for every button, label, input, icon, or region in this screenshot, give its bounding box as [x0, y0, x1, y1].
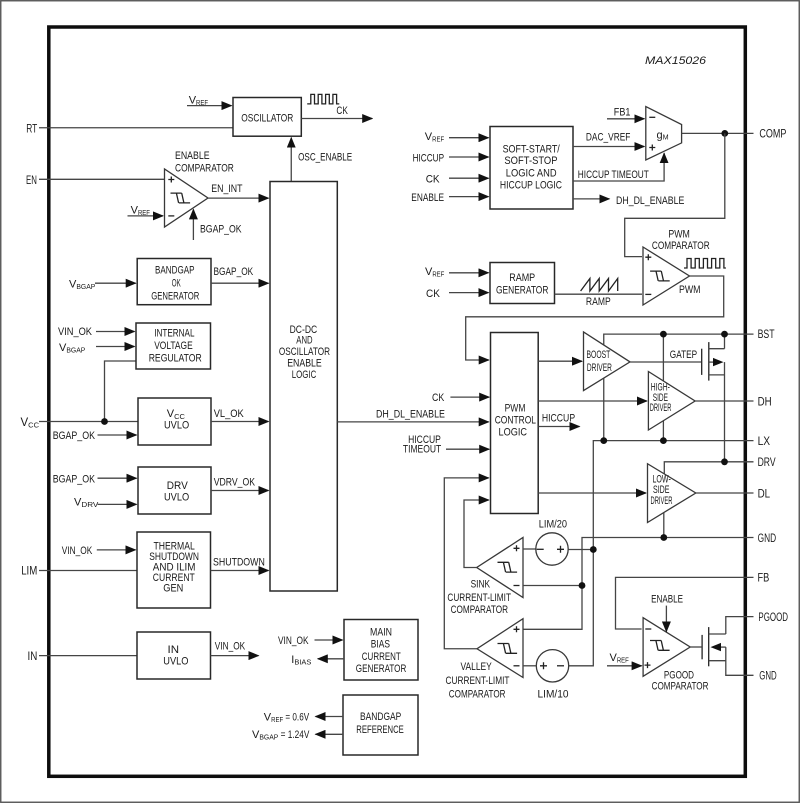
svg-text:LX: LX — [758, 436, 771, 448]
output VBGAP 1.24V from bandgap reference — [252, 729, 343, 742]
clock waveform CK symbol — [307, 94, 339, 104]
wire DAC_VREF to gm amp plus input — [573, 132, 644, 147]
svg-text:BGAP_OK: BGAP_OK — [53, 473, 96, 485]
output IBIAS from main bias — [291, 654, 344, 667]
wire EN_INT to enable logic — [208, 183, 269, 198]
input BGAP_OK up arrow into enable comparator — [193, 209, 242, 240]
svg-text:DRV: DRV — [758, 457, 776, 469]
svg-text:RT: RT — [26, 124, 37, 136]
input ENABLE to soft-start logic — [411, 192, 488, 204]
svg-text:DH_DL_ENABLE: DH_DL_ENABLE — [376, 409, 445, 421]
input VBGAP to bandgap OK generator — [69, 279, 136, 292]
svg-text:SHUTDOWN: SHUTDOWN — [213, 557, 265, 569]
svg-text:UVLO: UVLO — [164, 491, 190, 503]
svg-text:VL_OK: VL_OK — [214, 408, 245, 420]
svg-text:CURRENT: CURRENT — [362, 651, 401, 663]
oscillator box U_OSC — [233, 98, 301, 137]
wire BST to boost driver vertical — [604, 334, 754, 441]
input CK to ramp generator — [426, 288, 489, 300]
transistor M2 PGOOD MOSFET — [702, 627, 726, 666]
output VIN_OK from IN UVLO — [211, 641, 259, 656]
svg-text:PWM: PWM — [668, 229, 690, 241]
input VREF to ramp generator — [425, 266, 489, 279]
svg-text:CK: CK — [426, 288, 441, 300]
svg-text:BOOST: BOOST — [587, 349, 611, 361]
svg-text:GENERATOR: GENERATOR — [496, 284, 548, 296]
svg-text:UVLO: UVLO — [163, 655, 189, 667]
wire sink plus input to LIM/20 — [523, 548, 537, 550]
wire valley minus to LIM/10 — [523, 665, 536, 667]
input VREF to oscillator — [187, 95, 232, 108]
svg-text:EN: EN — [26, 175, 37, 187]
minus mark in LIM/20 — [537, 548, 544, 550]
block bandgap reference — [343, 695, 418, 755]
ramp sawtooth waveform symbol — [581, 279, 618, 292]
block DRV UVLO — [138, 467, 211, 514]
input BGAP_OK to VCC UVLO — [53, 430, 137, 442]
hysteresis symbol of valley comparator — [498, 644, 518, 654]
input VDRV to DRV UVLO — [74, 496, 137, 509]
current source LIM/10 — [536, 650, 568, 701]
svg-text:COMPARATOR: COMPARATOR — [449, 689, 506, 701]
plus mark in LIM/20 — [557, 546, 564, 553]
svg-text:PWM: PWM — [505, 403, 526, 415]
wire low-side driver ground to GND line — [663, 513, 665, 538]
svg-text:EN_INT: EN_INT — [211, 183, 242, 195]
output CK wire — [301, 105, 372, 119]
svg-text:VDRV_OK: VDRV_OK — [214, 477, 256, 489]
svg-text:RAMP: RAMP — [509, 272, 535, 284]
op-amp valley current-limit comparator — [477, 619, 523, 678]
svg-text:DH_DL_ENABLE: DH_DL_ENABLE — [616, 195, 684, 207]
junction BST nodes — [660, 331, 667, 338]
svg-text:FB1: FB1 — [614, 107, 631, 119]
svg-text:IN: IN — [28, 651, 38, 663]
wire PGOOD comparator output to M2 gate — [690, 646, 701, 648]
hysteresis symbol of PGOOD comparator — [650, 641, 670, 651]
svg-text:ENABLE: ENABLE — [175, 150, 210, 162]
wire PWM control logic to high-side driver — [538, 400, 647, 402]
input VREF to enable comparator minus — [128, 205, 164, 218]
wire VDRV_OK to enable logic — [211, 477, 269, 491]
block PWM control logic — [491, 333, 539, 514]
svg-text:GEN: GEN — [163, 583, 183, 595]
svg-text:GENERATOR: GENERATOR — [151, 290, 199, 302]
svg-text:VALLEY: VALLEY — [461, 661, 493, 673]
svg-text:LOGIC: LOGIC — [292, 369, 317, 381]
block DC-DC and oscillator enable logic — [270, 182, 337, 592]
input CK to soft-start logic — [426, 173, 489, 185]
svg-text:INTERNAL: INTERNAL — [154, 328, 194, 340]
svg-text:VOLTAGE: VOLTAGE — [154, 340, 193, 352]
transistor M1 boost MOSFET — [702, 342, 725, 381]
svg-text:HICCUP: HICCUP — [542, 412, 575, 424]
pin RT — [26, 124, 233, 136]
wire RAMP to PWM comparator minus input — [555, 294, 643, 308]
wire sink comparator output to PWM control logic — [464, 500, 489, 568]
svg-text:DL: DL — [758, 488, 771, 500]
op-amp U_EN enable comparator — [165, 169, 209, 227]
svg-text:MAX15026: MAX15026 — [645, 55, 707, 67]
PGOOD comparator label — [652, 669, 709, 692]
output VREF 0.6V from bandgap reference — [264, 711, 343, 724]
valley comparator label — [446, 661, 510, 701]
wire DRV line to low-side driver — [664, 462, 753, 474]
pin IN — [28, 651, 138, 663]
svg-text:GATEP: GATEP — [670, 349, 697, 361]
wire sink minus to GND vertical — [523, 585, 582, 587]
enable comparator label — [175, 150, 234, 175]
op-amp U_PWM comparator — [643, 247, 690, 305]
svg-text:OSCILLATOR: OSCILLATOR — [241, 112, 293, 124]
junction sink minus GND node — [579, 582, 586, 589]
svg-text:BGAP_OK: BGAP_OK — [214, 266, 254, 278]
svg-text:VIN_OK: VIN_OK — [278, 635, 309, 647]
svg-text:LIM/20: LIM/20 — [539, 519, 567, 531]
junction LX nodes — [600, 437, 607, 444]
svg-text:BST: BST — [758, 329, 775, 341]
input FB1 to gm amp minus input — [607, 107, 644, 119]
svg-text:SINK: SINK — [471, 579, 491, 591]
minus input mark of sink comparator — [514, 585, 520, 587]
junction LIM/20 LX node — [590, 546, 597, 553]
wire HICCUP TIMEOUT from soft-start to gm amp — [573, 153, 664, 181]
wire LX line — [569, 441, 754, 666]
svg-text:CK: CK — [432, 392, 445, 404]
amplifier high-side driver — [648, 372, 695, 431]
svg-text:HICCUP TIMEOUT: HICCUP TIMEOUT — [578, 169, 649, 181]
wire BGAP_OK to enable logic — [211, 266, 269, 283]
wire M1 source to DRV — [724, 362, 726, 462]
block bandgap OK generator — [137, 259, 211, 305]
svg-text:REGULATOR: REGULATOR — [149, 352, 202, 364]
wire COMP output of gm amp — [682, 132, 754, 134]
minus input mark of PGOOD comparator — [645, 628, 651, 630]
minus input mark of valley comparator — [514, 665, 520, 667]
svg-text:OK: OK — [172, 277, 181, 289]
svg-text:CK: CK — [426, 173, 441, 185]
minus mark in LIM/10 — [557, 665, 564, 667]
plus input mark of enable comparator — [168, 177, 174, 183]
svg-text:SIDE: SIDE — [653, 484, 670, 496]
svg-text:SOFT-STOP: SOFT-STOP — [504, 155, 557, 167]
svg-text:CONTROL: CONTROL — [495, 415, 536, 427]
svg-text:DRIVER: DRIVER — [650, 402, 672, 414]
PWM comparator label — [652, 229, 710, 253]
svg-text:UVLO: UVLO — [164, 420, 190, 432]
svg-text:LIM/10: LIM/10 — [538, 689, 569, 701]
svg-text:BGAP_OK: BGAP_OK — [200, 223, 242, 235]
wire LIM/20 to LX vertical — [568, 549, 593, 551]
block main bias current generator — [344, 620, 418, 681]
wire DH_DL_ENABLE from enable logic to PWM control logic — [337, 409, 488, 422]
pin LIM — [21, 565, 137, 577]
svg-text:LOGIC: LOGIC — [499, 427, 528, 439]
wire FB line to PGOOD comparator minus — [616, 577, 754, 629]
wire VL_OK to enable logic — [211, 408, 269, 421]
svg-text:OSC_ENABLE: OSC_ENABLE — [298, 152, 352, 164]
input VBGAP to internal voltage regulator — [59, 342, 135, 355]
junction VCC node — [101, 418, 108, 425]
wire PWM control logic to low-side driver — [538, 492, 646, 494]
op-amp sink current-limit comparator — [477, 538, 523, 598]
op-amp U_GM transconductance amplifier — [646, 107, 682, 161]
plus input mark of PGOOD comparator — [645, 662, 651, 668]
svg-text:AND: AND — [296, 335, 312, 347]
svg-text:VIN_OK: VIN_OK — [215, 641, 246, 653]
svg-text:PGOOD: PGOOD — [758, 612, 788, 624]
svg-text:DRIVER: DRIVER — [651, 495, 673, 507]
svg-text:DRV: DRV — [167, 480, 189, 492]
svg-text:DH: DH — [758, 396, 772, 408]
block VCC UVLO — [138, 398, 211, 445]
svg-text:COMP: COMP — [759, 129, 786, 141]
svg-text:COMPARATOR: COMPARATOR — [652, 240, 710, 252]
wire COMP feedback to PWM comparator plus input — [625, 133, 725, 256]
amplifier low-side driver — [648, 464, 696, 523]
svg-text:VIN_OK: VIN_OK — [58, 326, 93, 338]
input VIN_OK to thermal shutdown — [62, 545, 136, 557]
svg-text:CURRENT-LIMIT: CURRENT-LIMIT — [447, 592, 511, 604]
wire M2 drain to PGOOD pin — [726, 617, 754, 634]
input VREF to PGOOD comparator plus — [607, 652, 642, 666]
junction COMP node — [721, 130, 728, 137]
wire DL output — [696, 492, 754, 494]
wire HICCUP output of PWM control logic — [538, 412, 579, 426]
wire VCC branch to internal voltage regulator — [105, 361, 137, 422]
svg-text:RAMP: RAMP — [586, 296, 611, 308]
svg-text:TIMEOUT: TIMEOUT — [403, 444, 442, 456]
PWM output waveform symbol — [684, 259, 726, 269]
minus input mark of enable comparator — [168, 215, 174, 217]
svg-text:ENABLE: ENABLE — [651, 594, 683, 606]
wire BST to LX bootstrap vertical — [662, 334, 664, 441]
input VIN_OK to internal voltage regulator — [58, 326, 135, 338]
svg-text:HICCUP: HICCUP — [413, 152, 445, 164]
sink comparator label — [447, 579, 511, 617]
input VREF to soft-start logic — [425, 131, 489, 144]
svg-text:IN: IN — [168, 644, 180, 656]
plus mark in LIM/10 — [540, 662, 547, 669]
wire M2 source to GND pin — [726, 647, 754, 675]
svg-text:FB: FB — [758, 573, 770, 585]
amplifier boost driver — [584, 332, 631, 391]
svg-text:GND: GND — [758, 533, 777, 545]
wire OSC_ENABLE with up arrow — [291, 138, 352, 182]
block IN UVLO — [137, 632, 211, 679]
wire PWM output feedback to PWM control logic — [466, 276, 724, 360]
block internal voltage regulator — [136, 323, 211, 369]
input BGAP_OK to DRV UVLO — [53, 473, 137, 485]
svg-text:SOFT-START/: SOFT-START/ — [503, 144, 561, 156]
current source LIM/20 — [536, 519, 568, 566]
svg-text:PWM: PWM — [679, 284, 701, 296]
svg-text:CK: CK — [336, 105, 348, 117]
plus input mark of valley comparator — [514, 626, 520, 632]
svg-text:ENABLE: ENABLE — [287, 357, 322, 369]
svg-text:LIM: LIM — [21, 565, 37, 577]
minus input mark of PWM comparator — [645, 293, 651, 295]
svg-text:DRIVER: DRIVER — [587, 362, 612, 374]
svg-text:BIAS: BIAS — [371, 639, 390, 651]
input HICCUP to soft-start logic — [413, 152, 489, 164]
svg-text:VREF = 0.6V: VREF = 0.6V — [264, 711, 310, 724]
svg-text:COMPARATOR: COMPARATOR — [652, 681, 709, 693]
svg-text:HICCUP LOGIC: HICCUP LOGIC — [500, 180, 562, 192]
block soft-start soft-stop logic and hiccup logic — [490, 127, 573, 210]
input VIN_OK to main bias — [278, 635, 343, 647]
wire DH_DL_ENABLE output of soft-start logic — [573, 195, 684, 207]
svg-text:MAIN: MAIN — [370, 626, 392, 638]
wire DH output — [695, 400, 753, 402]
wire GATEP net from boost driver to MOSFET gate — [630, 349, 701, 362]
hysteresis symbol of enable comparator — [171, 193, 191, 203]
hysteresis symbol of sink comparator — [498, 562, 518, 572]
svg-text:GENERATOR: GENERATOR — [356, 663, 407, 675]
svg-text:BANDGAP: BANDGAP — [360, 711, 401, 723]
op-amp PGOOD comparator — [643, 618, 690, 677]
svg-text:COMPARATOR: COMPARATOR — [451, 604, 508, 616]
plus input mark of PWM comparator — [645, 254, 651, 260]
svg-text:GND: GND — [759, 671, 777, 683]
plus input mark of gm amp — [649, 145, 655, 151]
wire valley comparator output to PWM control logic — [444, 478, 488, 649]
hysteresis symbol of PWM comparator — [650, 271, 670, 281]
input ENABLE down arrow to PGOOD comparator — [651, 594, 683, 632]
wire PWM control logic to boost driver — [538, 360, 582, 362]
input CK to PWM control logic — [432, 392, 489, 404]
svg-text:LOGIC AND: LOGIC AND — [506, 167, 557, 179]
svg-text:BANDGAP: BANDGAP — [155, 265, 195, 277]
svg-text:DAC_VREF: DAC_VREF — [586, 132, 631, 144]
plus input mark of sink comparator — [514, 545, 520, 551]
pin VCC — [21, 417, 139, 430]
minus input mark of gm amp — [649, 116, 655, 118]
junction GND node at low-side — [660, 534, 667, 541]
wire SHUTDOWN to enable logic — [211, 557, 269, 571]
svg-text:COMPARATOR: COMPARATOR — [175, 162, 234, 174]
pin EN — [26, 175, 165, 187]
svg-text:ENABLE: ENABLE — [411, 192, 444, 204]
svg-text:VIN_OK: VIN_OK — [62, 545, 93, 557]
input HICCUP TIMEOUT to PWM control logic — [403, 434, 489, 456]
svg-text:REFERENCE: REFERENCE — [356, 724, 404, 736]
block thermal shutdown and ILIM current gen — [137, 532, 211, 608]
wire M1 drain to BST — [724, 334, 726, 349]
svg-text:BGAP_OK: BGAP_OK — [53, 430, 96, 442]
svg-text:CURRENT-LIMIT: CURRENT-LIMIT — [446, 675, 510, 687]
wire GND line — [523, 538, 754, 630]
block ramp generator — [490, 263, 555, 304]
junction DRV node — [721, 458, 728, 465]
